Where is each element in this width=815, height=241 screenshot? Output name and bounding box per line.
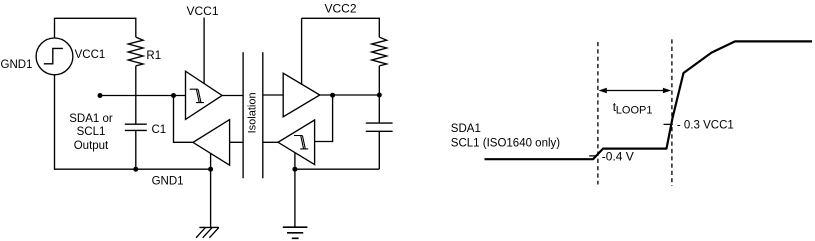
svg-text:SDA1 or: SDA1 or bbox=[69, 113, 113, 125]
svg-text:-0.4 V: -0.4 V bbox=[602, 149, 634, 163]
svg-text:VCC1: VCC1 bbox=[187, 4, 219, 18]
svg-text:C1: C1 bbox=[152, 124, 167, 136]
svg-text:VCC1: VCC1 bbox=[75, 49, 106, 61]
svg-text:SCL1: SCL1 bbox=[77, 126, 106, 138]
svg-text:- 0.3 VCC1: - 0.3 VCC1 bbox=[677, 120, 734, 132]
svg-text:Isolation: Isolation bbox=[247, 92, 259, 133]
svg-text:SDA1: SDA1 bbox=[451, 123, 481, 135]
svg-text:GND1: GND1 bbox=[152, 176, 184, 188]
svg-text:LOOP1: LOOP1 bbox=[616, 104, 653, 116]
svg-text:GND1: GND1 bbox=[1, 59, 33, 71]
svg-text:R1: R1 bbox=[146, 50, 161, 62]
svg-text:VCC2: VCC2 bbox=[325, 1, 357, 15]
svg-text:Output: Output bbox=[74, 140, 109, 152]
svg-text:SCL1 (ISO1640 only): SCL1 (ISO1640 only) bbox=[451, 137, 560, 149]
